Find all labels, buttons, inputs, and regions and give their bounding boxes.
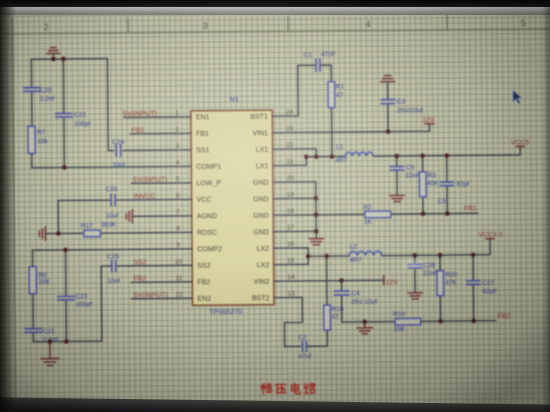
node: junction ground net / C23 — [64, 339, 69, 344]
net label SS2 pin10 — [133, 259, 146, 266]
capacitor C28 — [408, 264, 422, 268]
inductor L1 — [345, 152, 373, 157]
svg-text:10uf: 10uf — [106, 212, 119, 219]
svg-text:24: 24 — [286, 109, 294, 116]
svg-text:FB1: FB1 — [464, 205, 477, 212]
wire: R7 bottom to COMP1 wire — [31, 153, 33, 167]
svg-text:47nf: 47nf — [298, 353, 311, 360]
wire: VIN1 net pin23 — [287, 124, 430, 133]
wire: R6 top lead — [32, 250, 34, 266]
wire: R18 top to LX2 rail — [326, 256, 328, 305]
svg-text:EN2: EN2 — [197, 296, 211, 303]
ground: below C6 — [390, 195, 404, 201]
op-amp/regulator IC U1 TPS65270 body — [191, 110, 274, 305]
svg-text:100pf: 100pf — [74, 121, 91, 128]
node: junction R3 / FB1 — [421, 211, 426, 216]
svg-text:L2: L2 — [350, 243, 358, 250]
sheet zone numbers — [44, 18, 526, 32]
resistor R20 — [437, 271, 444, 296]
power port 12V (VIN2, bar right) — [383, 276, 385, 285]
svg-text:LOW_P: LOW_P — [196, 180, 221, 187]
IC pin names right column — [250, 114, 269, 303]
svg-text:47: 47 — [332, 314, 340, 321]
svg-text:C23: C23 — [75, 293, 87, 300]
IC pin numbers 1-12 — [174, 110, 183, 299]
svg-text:40K: 40K — [427, 180, 439, 187]
svg-text:VCC3.3: VCC3.3 — [478, 232, 502, 239]
resistor R6 — [29, 267, 36, 294]
net label FB2 pin11 — [133, 276, 146, 283]
wire: C20 to R7 stem — [31, 92, 33, 126]
svg-text:C22: C22 — [74, 112, 86, 119]
svg-text:C1: C1 — [303, 52, 312, 59]
svg-text:R7: R7 — [37, 129, 46, 136]
svg-text:82pf: 82pf — [456, 181, 469, 188]
svg-text:GND: GND — [253, 213, 269, 220]
svg-text:18: 18 — [287, 208, 295, 215]
node: junction C27 / VCC3.3 rail — [471, 253, 476, 258]
IC designator N1 — [230, 96, 239, 103]
wire: C24 right lead to pin SS1 — [123, 149, 176, 151]
net label FB2 — [498, 313, 511, 320]
svg-text:1: 1 — [175, 110, 179, 117]
svg-text:10nf: 10nf — [112, 162, 125, 169]
svg-text:21: 21 — [286, 158, 294, 165]
svg-text:10nf: 10nf — [107, 278, 120, 285]
svg-text:17: 17 — [287, 224, 295, 231]
svg-text:4R7: 4R7 — [335, 157, 347, 164]
svg-text:LX2: LX2 — [257, 246, 270, 253]
title text: 稳压电路 (drawn strokes) — [261, 383, 315, 394]
wire: C6 stem — [396, 156, 398, 194]
svg-text:2: 2 — [175, 126, 179, 133]
ground: top-left (points up) — [47, 47, 60, 53]
wire: bottom-left ground net — [33, 340, 101, 343]
svg-text:3: 3 — [176, 143, 180, 150]
svg-text:12V: 12V — [386, 279, 399, 286]
power port 12V (VIN1) — [425, 123, 434, 125]
power port VCC3.3 — [486, 238, 494, 240]
wire: LX1 rail to L1 — [306, 155, 345, 157]
svg-text:15: 15 — [287, 257, 295, 264]
wire: LX2 rail to L2 — [308, 255, 349, 257]
svg-text:GND: GND — [253, 196, 269, 203]
capacitor C21 — [25, 329, 41, 333]
wire: R20 leads — [439, 255, 442, 321]
svg-text:FB2: FB2 — [133, 276, 146, 283]
capacitor C1 — [316, 59, 320, 71]
wire: C1 to R1 top — [320, 65, 331, 82]
svg-text:EN1: EN1 — [196, 114, 210, 121]
wire: C3 stem to VIN1 — [387, 104, 389, 131]
inductor L2 — [349, 251, 382, 256]
svg-text:BST2: BST2 — [252, 295, 270, 302]
node: junction R20 / FB2 — [438, 319, 443, 324]
svg-text:LX2: LX2 — [257, 262, 270, 269]
capacitor C26 — [111, 195, 115, 206]
ground: below C4 (FB2 divider ground) — [357, 322, 372, 334]
node: junction GND collector pin18/FB1 — [314, 212, 319, 217]
svg-text:C25: C25 — [107, 253, 119, 260]
svg-text:14: 14 — [287, 274, 295, 281]
svg-text:22: 22 — [286, 142, 294, 149]
svg-text:TPS65270: TPS65270 — [209, 309, 242, 316]
wire: BST1 pin24 to C1 — [286, 65, 315, 116]
svg-text:BST1: BST1 — [250, 114, 268, 121]
svg-text:4R7: 4R7 — [350, 257, 362, 264]
wire: vertical from top rail down to SS1/C24 — [107, 59, 113, 151]
wire: FB1 net with R2 — [316, 213, 478, 214]
wire: C28 stem — [414, 255, 416, 291]
ground: bottom-left — [41, 342, 58, 366]
wire: C21 bottom stem — [32, 333, 34, 342]
node: junction GND collector pin19 — [314, 196, 319, 201]
svg-text:5V(INPUT): 5V(INPUT) — [133, 177, 167, 184]
wire: C4 stem — [341, 281, 343, 322]
wire: INVCC vertical to ground node — [57, 200, 59, 233]
net label 5V(INPUT) pin1 — [123, 111, 157, 118]
svg-text:9: 9 — [176, 242, 180, 249]
wire: INVCC/C26 leads pin6 — [58, 199, 176, 200]
node: junction COMP2 / C23 — [63, 248, 68, 253]
wire: R6 to C21 stem — [32, 294, 34, 329]
svg-text:VIN2: VIN2 — [254, 279, 270, 286]
svg-text:47K: 47K — [445, 280, 457, 287]
svg-text:4: 4 — [366, 19, 371, 29]
svg-text:10k: 10k — [37, 138, 48, 145]
svg-text:8: 8 — [176, 225, 180, 232]
wire: C25 right lead to pin SS2 — [116, 264, 177, 267]
svg-text:R3: R3 — [427, 172, 436, 179]
node: junction INVCC ground / R17 — [56, 231, 61, 236]
node: junction top rail / C22 — [61, 57, 66, 62]
svg-text:20: 20 — [286, 175, 294, 182]
svg-text:383K: 383K — [101, 221, 117, 228]
svg-text:13: 13 — [287, 290, 295, 297]
svg-text:R19: R19 — [393, 311, 405, 318]
svg-text:22nF: 22nF — [405, 172, 420, 179]
svg-text:GND: GND — [253, 180, 269, 187]
svg-text:LX1: LX1 — [256, 163, 269, 170]
svg-text:12V: 12V — [422, 117, 435, 124]
svg-text:3: 3 — [203, 21, 208, 31]
svg-text:16: 16 — [287, 241, 295, 248]
wire: FB1 net stub pin2 — [130, 132, 176, 134]
wire: COMP2 net horizontal — [33, 249, 177, 250]
svg-text:15K: 15K — [393, 326, 405, 333]
node: junction GND collector pin17 — [314, 229, 319, 234]
net label FB1 pin2 — [131, 127, 144, 134]
svg-text:C4: C4 — [351, 290, 360, 297]
resistor R2 — [365, 211, 391, 218]
capacitor C5 — [440, 182, 453, 186]
capacitor C22 — [56, 113, 72, 117]
svg-text:SS2: SS2 — [197, 263, 210, 270]
wire: C3 top stem to ground — [387, 83, 389, 99]
resistor R18 — [324, 305, 331, 330]
wire: top-left rail (COMP1 RC to ground) — [31, 58, 107, 61]
svg-text:10: 10 — [175, 258, 183, 265]
wire: EN2 5V stub pin12 — [131, 297, 177, 299]
wire: C23 branch vertical — [65, 250, 68, 341]
svg-text:47: 47 — [336, 92, 344, 99]
svg-text:VIN1: VIN1 — [252, 130, 268, 137]
svg-text:11: 11 — [176, 275, 183, 282]
node: junction R18 / LX2 rail — [324, 254, 329, 259]
svg-text:4: 4 — [176, 159, 180, 166]
wire: BST2 pin13 to C2 — [284, 297, 302, 346]
svg-text:C6: C6 — [406, 164, 415, 171]
wire: ground stem left-middle — [46, 232, 58, 234]
svg-text:R18: R18 — [332, 306, 344, 313]
node: junction ground net / ground stem — [48, 339, 53, 344]
svg-text:5V(INPUT): 5V(INPUT) — [123, 111, 157, 118]
node: junction pin21 riser / LX1 rail — [304, 155, 309, 160]
resistor R7 — [28, 126, 35, 153]
wire: R1 bottom to LX1 rail — [331, 108, 333, 157]
wire: EN1 net stub pin1 — [124, 116, 176, 118]
wire: LX2 pin16 jog — [288, 248, 308, 257]
capacitor C2 — [302, 341, 306, 351]
node: junction C28 / VCC3.3 rail — [413, 253, 418, 258]
ground: left-middle (points left, INVCC/R17 node) — [39, 227, 45, 240]
wire: VCC5 rail after L1 — [373, 146, 520, 156]
power port VCC5 — [516, 145, 524, 147]
node: junction C3/VIN1 — [386, 129, 391, 134]
svg-text:N1: N1 — [230, 96, 239, 103]
svg-text:R17: R17 — [81, 223, 93, 230]
svg-text:12: 12 — [175, 291, 183, 298]
wire: R3 leads — [422, 156, 425, 214]
svg-text:2: 2 — [44, 22, 49, 32]
wire: FB2 stub pin11 — [131, 281, 177, 283]
net label FB1 — [464, 205, 477, 212]
IC pin lines left pins 1-12 — [176, 117, 193, 299]
svg-text:COMP1: COMP1 — [196, 164, 221, 171]
mouse cursor — [513, 90, 523, 104]
node: junction COMP1 / C22 — [62, 165, 67, 170]
net label 5V(INPUT) pin5 — [133, 177, 167, 184]
node: junction C5 / VCC5 rail — [444, 153, 449, 158]
node: junction R3 / VCC5 rail — [420, 153, 425, 158]
svg-text:AGND: AGND — [197, 213, 217, 220]
svg-text:23: 23 — [286, 125, 294, 132]
svg-text:C20: C20 — [40, 87, 52, 94]
svg-text:GND: GND — [253, 229, 269, 236]
svg-text:82pF: 82pF — [482, 288, 497, 295]
svg-text:19: 19 — [287, 191, 295, 198]
svg-text:C24: C24 — [112, 139, 124, 146]
svg-text:C3: C3 — [397, 98, 406, 105]
capacitor C23 — [58, 296, 74, 300]
wire: R17 leads (ROSC) — [58, 232, 176, 233]
node: junction top rail / ground — [51, 57, 56, 62]
wire: LOW_P 5V stub pin5 — [131, 182, 176, 184]
IC pin names left column — [196, 114, 223, 303]
wire: C25 riser from ground net — [101, 266, 112, 341]
wire: C20 top stem — [30, 59, 32, 87]
svg-text:C27: C27 — [482, 280, 494, 287]
resistor R1 — [328, 82, 335, 108]
svg-text:5: 5 — [521, 18, 526, 28]
net label 5V(INPUT) pin12 — [133, 292, 167, 299]
capacitor C25 — [112, 260, 116, 271]
svg-text:R20: R20 — [445, 272, 457, 279]
capacitor C4 — [334, 291, 349, 295]
node: junction C4 / VIN2 — [339, 278, 344, 283]
svg-text:5: 5 — [176, 176, 180, 183]
ground: AGND pin7 (points left) — [126, 210, 132, 223]
wire: GND collector vertical — [315, 182, 317, 238]
wire: VCC3.3 rail after L2 — [382, 239, 490, 256]
ground: above C3 (points up) — [381, 76, 395, 82]
svg-text:SS1: SS1 — [196, 147, 209, 154]
svg-text:C2: C2 — [298, 334, 307, 341]
wire: C4 ground segment to R19 — [342, 321, 395, 323]
node: junction ground / C4 segment — [362, 320, 367, 325]
wire: FB2 net after R19 — [421, 320, 496, 323]
IC pin lines right pins 24-13 — [272, 116, 288, 298]
svg-text:FB1: FB1 — [131, 127, 144, 134]
resistor R19 — [395, 318, 421, 325]
node: junction R20 / VCC3.3 rail — [438, 253, 443, 258]
svg-text:5V(INPUT): 5V(INPUT) — [133, 292, 167, 299]
node: junction pin22 riser / LX1 rail — [314, 154, 319, 159]
capacitor C6 — [390, 166, 403, 170]
capacitor C27 — [467, 281, 480, 285]
svg-text:C21: C21 — [43, 328, 55, 335]
svg-text:VCC5: VCC5 — [511, 139, 529, 146]
ground: below C28 — [408, 293, 422, 299]
svg-text:FB2: FB2 — [197, 279, 210, 286]
svg-text:ROSC: ROSC — [197, 230, 217, 237]
IC pin numbers 24-13 — [286, 109, 295, 298]
svg-text:7: 7 — [176, 209, 180, 216]
svg-text:LX1: LX1 — [256, 147, 269, 154]
svg-text:25V 10uf: 25V 10uf — [351, 299, 377, 306]
net label INVCC pin6 — [134, 193, 156, 200]
node: junction C5 / FB1 — [445, 211, 450, 216]
svg-text:100pf: 100pf — [76, 301, 93, 308]
svg-text:1K: 1K — [364, 219, 373, 226]
svg-text:47nF: 47nF — [321, 51, 336, 58]
svg-text:FB2: FB2 — [498, 313, 511, 320]
wire: VIN2 net pin14 — [288, 279, 383, 282]
svg-text:R2: R2 — [363, 204, 372, 211]
wire: COMP1 net horizontal — [32, 166, 176, 167]
svg-text:VCC: VCC — [197, 197, 212, 204]
wire: ground stem top-left — [52, 54, 54, 59]
wire: C5 leads — [446, 156, 449, 214]
svg-text:6: 6 — [176, 192, 180, 199]
svg-text:FB1: FB1 — [196, 131, 209, 138]
svg-text:L1: L1 — [336, 144, 344, 151]
node: junction C6 / VCC5 rail — [394, 154, 399, 159]
capacitor C24 — [116, 145, 121, 156]
wire: GND pins 20/19/18/17 — [287, 182, 316, 232]
wire: C27 leads — [472, 255, 475, 321]
ground: GND pins collector — [309, 239, 323, 245]
wire: C22 branch vertical — [62, 59, 65, 167]
wire: LX1 pin21 jog — [287, 157, 306, 166]
wire: LX2 pin15 jog — [288, 256, 308, 264]
svg-text:25V/10uf: 25V/10uf — [397, 107, 423, 114]
wire: C2 to R18 bottom — [306, 330, 327, 346]
svg-text:2.2nf: 2.2nf — [40, 96, 55, 103]
resistor R3 — [419, 172, 426, 197]
svg-text:10K: 10K — [38, 279, 50, 286]
node: junction C27 / FB2 — [471, 319, 476, 324]
capacitor C20 — [24, 88, 40, 92]
wire: AGND pin7 to ground — [132, 215, 176, 217]
wire: LX1 pin22 jog — [287, 149, 316, 157]
IC part number TPS65270 — [209, 309, 242, 316]
node: junction pin16/pin15 LX2 rail — [306, 254, 311, 259]
svg-text:INVCC: INVCC — [134, 193, 156, 200]
svg-text:R1: R1 — [336, 83, 345, 90]
svg-text:COMP2: COMP2 — [197, 246, 222, 253]
node: junction R1 / LX1 rail — [330, 154, 335, 159]
resistor R17 — [84, 230, 101, 237]
svg-text:SS2: SS2 — [133, 259, 146, 266]
svg-text:C26: C26 — [106, 186, 118, 193]
capacitor C3 — [381, 100, 394, 104]
svg-text:C5: C5 — [438, 198, 447, 205]
